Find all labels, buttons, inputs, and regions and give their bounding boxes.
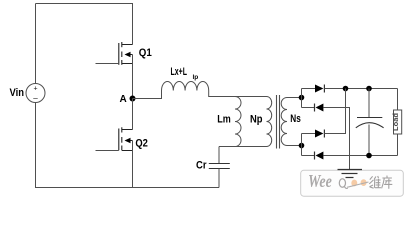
wire bottom link Cr to Np — [219, 146, 267, 148]
svg-text:Load: Load — [393, 113, 400, 131]
node Ns top — [299, 95, 305, 101]
svg-text:Vin: Vin — [10, 87, 25, 99]
wire left rail lower — [35, 103, 37, 188]
node rectifier plus rail — [343, 86, 349, 92]
svg-text:Wee: Wee — [308, 172, 332, 191]
wire Ns top lead — [287, 97, 302, 99]
watermark Q — [339, 179, 345, 187]
svg-text:lp: lp — [193, 74, 199, 81]
svg-text:–: – — [33, 94, 38, 103]
wire top rail — [36, 4, 133, 45]
watermark box — [301, 170, 404, 196]
node Ns bottom — [299, 143, 305, 149]
resistor Load — [393, 89, 402, 156]
watermark CJK ku — [382, 176, 393, 189]
source Vin — [26, 84, 45, 103]
diode D4 — [302, 152, 398, 160]
wire left rail upper — [35, 4, 37, 84]
ground — [338, 170, 363, 178]
winding Ns — [281, 98, 287, 146]
svg-text:Np: Np — [250, 114, 263, 126]
svg-text:Q1: Q1 — [139, 47, 152, 59]
diode D2 — [302, 104, 350, 112]
node cap bottom — [366, 153, 372, 159]
wire bottom rail — [35, 187, 219, 189]
svg-text:Ns: Ns — [290, 113, 301, 125]
wire D2 anode to ground — [323, 108, 349, 170]
transistor Q2 — [96, 99, 133, 188]
wire Ns bottom lead — [287, 145, 302, 147]
inductor Lm — [235, 97, 241, 147]
watermark oo — [351, 180, 357, 187]
capacitor Cout — [356, 89, 384, 156]
wire AC2 bus — [301, 134, 303, 156]
svg-text:Lx+L: Lx+L — [171, 66, 188, 78]
wire D3 cathode to plus rail — [324, 89, 345, 134]
watermark strike line — [347, 182, 369, 187]
svg-text:Cr: Cr — [196, 160, 207, 172]
watermark CJK wei — [369, 176, 381, 188]
wire AC1 bus — [301, 89, 303, 108]
node A — [130, 96, 136, 102]
transistor Q1 — [96, 42, 133, 99]
capacitor Cr — [209, 147, 230, 188]
diode D1 — [302, 85, 398, 93]
winding Np — [267, 97, 272, 147]
wire node A to inductor — [133, 91, 162, 99]
wire inductor to Np — [209, 91, 267, 97]
svg-text:A: A — [120, 94, 127, 105]
inductor Lx+Llp — [162, 82, 209, 91]
node cap top — [366, 86, 372, 92]
transformer core — [276, 95, 278, 149]
svg-text:Lm: Lm — [217, 114, 231, 126]
diode D3 — [302, 130, 346, 138]
svg-text:+: + — [33, 86, 37, 93]
svg-text:Q2: Q2 — [135, 138, 148, 150]
